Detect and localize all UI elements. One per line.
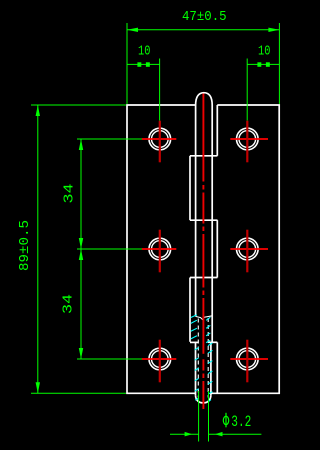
knuckle step 3 [190, 277, 217, 279]
dimension 34 upper [77, 139, 142, 249]
pin right edge [211, 105, 213, 342]
hole H4 top-right [230, 121, 268, 163]
hidden pin edge left (dashed) [197, 319, 199, 398]
hidden pin edge right (dashed) [207, 318, 209, 398]
pin left edge [195, 105, 197, 316]
dimension 10 left [127, 59, 160, 121]
dimension 47+-0.5 [127, 23, 279, 104]
right leaf inner edge segment 3 [216, 342, 218, 393]
knuckle step 4 right [208, 341, 217, 343]
phi symbol [223, 413, 228, 428]
dimension 34 lower [77, 249, 142, 359]
hole H5 mid-right [230, 230, 268, 273]
right leaf outline [211, 105, 279, 393]
dimension phi 3.2 [170, 391, 261, 442]
left leaf outline [127, 105, 196, 393]
svg-text:34: 34 [62, 184, 78, 204]
knuckle step 1 [190, 155, 217, 157]
bottom knuckle outer right [210, 342, 212, 395]
knuckle D outer left [189, 278, 191, 342]
section hatch left upper band [191, 315, 197, 339]
svg-text:10: 10 [258, 44, 270, 60]
section hatch right lower band [208, 343, 212, 402]
hole H1 top-left [142, 121, 177, 163]
svg-text:10: 10 [138, 44, 150, 60]
pin head dome [196, 93, 213, 105]
knuckle B outer left [189, 156, 191, 220]
dimension 10 right [247, 59, 279, 121]
hole H2 mid-left [142, 230, 177, 273]
right leaf inner edge segment 1 [216, 105, 218, 156]
pin center line (red) [202, 94, 204, 410]
knuckle step 2 [190, 219, 218, 221]
section hatch left lower band [195, 348, 199, 401]
break line [196, 316, 213, 320]
hole H6 bottom-right [230, 340, 268, 383]
right leaf inner edge segment 2 [216, 220, 218, 277]
knuckle step 4 left [190, 341, 199, 343]
hole H3 bottom-left [142, 340, 177, 383]
dimension 89+-0.5 [31, 105, 126, 393]
svg-text:47±0.5: 47±0.5 [182, 9, 227, 25]
svg-text:3.2: 3.2 [231, 413, 251, 431]
pin bottom cap [196, 395, 211, 403]
svg-text:89±0.5: 89±0.5 [17, 220, 33, 271]
section hatch right upper band [206, 317, 210, 342]
bottom knuckle outer left [195, 342, 197, 396]
svg-text:34: 34 [61, 294, 77, 314]
